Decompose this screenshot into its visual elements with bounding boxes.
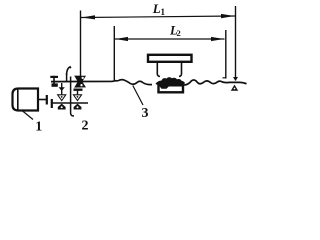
pump shaft [38, 99, 47, 101]
arrow foot at L1 right extension [233, 77, 238, 81]
svg-text:2: 2 [177, 28, 181, 38]
label L2 [169, 24, 181, 39]
drain riser [71, 77, 74, 117]
L2 extension foot tick [223, 77, 227, 79]
dimension L2 right extension line [225, 30, 227, 79]
leader line of label 3 [133, 86, 143, 106]
L2 left arrowhead [116, 37, 129, 41]
vent valve top bar [50, 76, 58, 78]
lower pipe [52, 102, 88, 104]
main-pipe valve upper triangle [74, 76, 86, 82]
carriage seal blob [156, 77, 186, 86]
svg-text:3: 3 [142, 106, 149, 121]
hose wavy segment left of carriage [118, 80, 152, 85]
cock stem [66, 73, 68, 82]
vent valve stem [53, 76, 55, 85]
carriage top plate [148, 55, 192, 62]
junction bar above lower valve [74, 89, 83, 91]
dimension L2 left extension line [113, 26, 115, 81]
L2 right arrowhead [211, 37, 224, 41]
label L1 [152, 1, 166, 17]
lower valve A bottom dot [61, 106, 63, 108]
main-pipe valve lower triangle [74, 82, 86, 88]
dimension line L2 [115, 38, 225, 40]
stub triangle above valve A [59, 87, 65, 91]
svg-text:1: 1 [161, 7, 166, 17]
lower valve A top dot [61, 96, 63, 98]
lower valve A bottom filled [58, 104, 66, 110]
dimension L1 left extension line [80, 11, 82, 77]
pipe end support symbol [231, 85, 238, 91]
lower valve B top open triangle [73, 95, 81, 101]
main-pipe valve lower dot [80, 84, 82, 86]
cock lever handle [67, 67, 71, 75]
lower valve B bottom dot [77, 106, 79, 108]
hose wavy segment right of carriage [184, 80, 247, 85]
L1 left arrowhead [82, 15, 96, 19]
lower valve B top dot [77, 96, 79, 98]
dimension L1 right extension line [235, 6, 237, 81]
svg-text:2: 2 [82, 119, 89, 134]
lower valve A top open triangle [58, 95, 66, 101]
coupling bar a [46, 95, 48, 105]
pipe end support dot [234, 88, 236, 90]
coupling bar b [51, 99, 53, 108]
stub stem above valve A [61, 83, 63, 95]
main-pipe valve upper dot [82, 77, 84, 79]
stem above valve B [77, 91, 79, 95]
vent valve lower blob [52, 83, 58, 86]
L1 right arrowhead [221, 14, 235, 18]
pump unit 1 body [13, 89, 39, 111]
pump body inner end-cap line [17, 89, 19, 111]
leader line of label 1 [22, 111, 33, 120]
carriage base inner lump [160, 86, 170, 89]
dimension line L1 [81, 16, 235, 18]
main pipe straight left segment [51, 80, 118, 83]
carriage stem block [157, 62, 181, 76]
lower valve B bottom filled [74, 104, 82, 110]
svg-text:L: L [152, 1, 161, 16]
carriage base box [159, 85, 184, 92]
svg-text:1: 1 [35, 120, 42, 135]
